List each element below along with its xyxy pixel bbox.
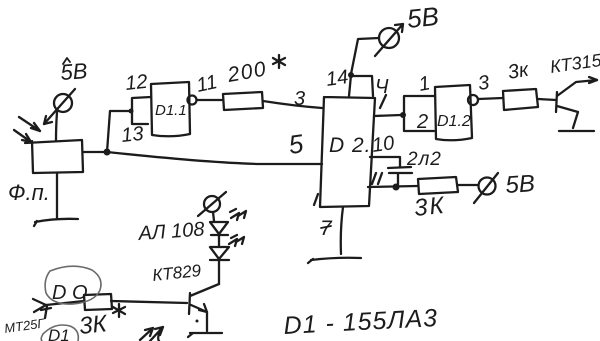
ground (D2 pin 7) [308,258,361,263]
wire D2 pin 11 [368,186,417,187]
resistor R 3K* [84,294,112,310]
input arrow [33,299,84,312]
svg-text:2л2: 2л2 [406,149,442,170]
svg-text:D1.1: D1.1 [155,102,187,119]
svg-text:12: 12 [124,71,148,95]
input stub [41,306,51,318]
power symbol top 5V [375,24,403,56]
asterisk for 3K [113,304,125,317]
asterisk for 200 [273,55,285,68]
wire R200 to D2 pin 3 [263,101,322,108]
svg-text:3: 3 [294,88,305,110]
svg-text:D O: D O [52,282,88,304]
svg-text:3к: 3к [506,58,532,84]
svg-text:D1 - 155ЛА3: D1 - 155ЛА3 [283,304,439,340]
wire FP to node A [83,151,104,153]
svg-text:5В: 5В [60,58,89,85]
capacitor 2n2 [388,167,412,187]
node B junction dot [400,112,406,118]
wire loop to pin 4 [351,76,373,96]
wire FP box to ground [56,173,58,218]
light arrows LED1 [230,209,246,220]
ground (KT829 emitter) [188,333,222,337]
wire power to photodetector box [56,112,57,140]
ellipse around D1 (bottom, clipped) [41,325,78,341]
svg-text:КТ315: КТ315 [549,50,600,77]
svg-text:D1.2: D1.2 [437,113,471,130]
ground (photodetector) [34,219,78,226]
svg-text:2: 2 [416,111,428,133]
gate D1.1 [151,82,190,136]
wire R3k to KT315 base [538,99,556,100]
input tie D1.2 pins 1/2 [404,96,434,131]
wire KT829 base to R3K* [111,301,187,303]
pin label 11 (slashes) [372,173,382,184]
svg-text:АЛ 108: АЛ 108 [137,218,205,245]
svg-text:Ф.п.: Ф.п. [8,180,50,205]
dot near KT829 [196,320,199,323]
pin 4 slash [380,95,386,108]
svg-text:200: 200 [225,57,269,87]
svg-text:11: 11 [194,71,219,97]
resistor R 3k (top) [503,89,538,110]
wire node A up to D1.1 inputs [107,111,131,152]
input tie bracket pins 12/13 [132,97,151,124]
wire 5V to D2 pin 14 [351,38,379,74]
svg-text:D1: D1 [48,326,70,341]
light rays into photodetector [14,117,40,142]
photodetector box FP [25,140,83,173]
node dot pin 11 [393,184,400,191]
wire power to LED1 [213,212,214,221]
transistor KT315 [556,77,597,128]
node A junction dot [104,149,111,156]
IC D2 box [320,97,375,207]
label 5V supply (photodetector) [63,58,70,64]
corner slash D2 [314,194,318,205]
svg-text:3: 3 [477,72,491,95]
svg-text:5: 5 [287,128,306,160]
wire dot to D2 top pin 14 [349,75,351,96]
LED VD1 (AL108) [210,222,228,235]
resistor R 3K (bottom) [418,177,458,194]
light arrows LED2 [229,235,244,246]
wire D2 output to node B [374,115,401,116]
svg-text:5В: 5В [505,170,536,199]
svg-text:14: 14 [325,66,350,91]
junction blob at D1.1 input tie [129,109,134,114]
wire D2 pin 10 to capacitor [370,157,400,167]
wire R3K to 5V [458,184,477,186]
wire node A to D2 pin 5 [107,152,322,164]
wire D2 pin 7 down [341,207,343,254]
ellipse around D0 [45,266,101,304]
svg-text:КТ829: КТ829 [151,261,202,285]
ground (KT315 emitter) [559,130,594,132]
double arrow bottom center [140,327,163,341]
svg-text:3К: 3К [413,192,447,222]
resistor R 200 [223,92,263,110]
svg-text:3К: 3К [78,310,110,340]
LED VD2 (AL108) [210,247,229,260]
node dot pin 14 [348,72,354,78]
svg-text:10: 10 [371,132,396,157]
svg-text:5В: 5В [405,1,440,34]
svg-text:D 2.: D 2. [329,134,372,157]
transistor KT829 [189,284,219,331]
power symbol photodetector [44,89,75,124]
svg-text:13: 13 [120,123,144,147]
wire LED2 to KT829 collector [218,261,220,284]
wire LED1 to LED2 [218,236,220,246]
svg-text:1: 1 [417,72,432,96]
wire D1.1 out to R 200 [197,99,223,101]
power symbol LED chain 5V [198,192,226,216]
wire D1.2 to R 3k [478,98,503,99]
inverter bubble D1.2 pin 3 [468,95,478,105]
power symbol right 5V [474,173,498,203]
gate D1.2 [435,85,472,140]
svg-text:МТ25Г: МТ25Г [3,315,46,336]
inverter bubble D1.1 pin 11 [188,96,197,105]
